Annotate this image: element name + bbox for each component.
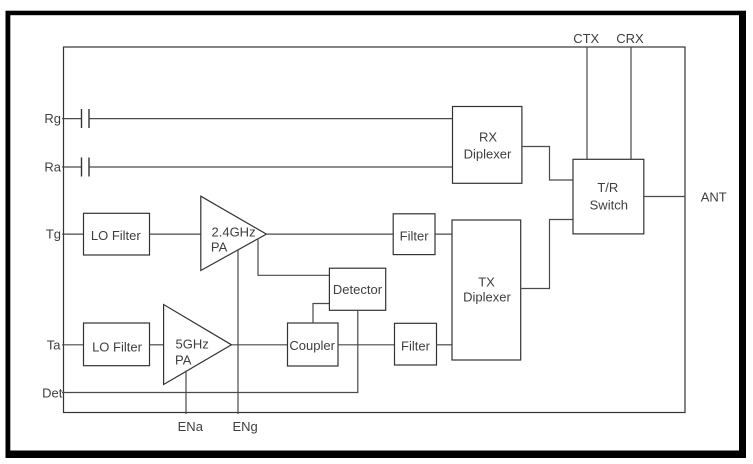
pin label CTX — [573, 31, 599, 46]
svg-text:Ta: Ta — [47, 338, 62, 353]
wire Coupler to Filter — [338, 344, 395, 346]
block TX Diplexer — [452, 220, 521, 360]
svg-text:Detector: Detector — [333, 282, 383, 297]
svg-text:RX: RX — [479, 130, 497, 145]
wire Rg to RX Diplexer — [90, 118, 453, 120]
block Coupler — [288, 323, 339, 366]
amplifier 5GHz PA — [164, 305, 232, 385]
wire ANT output — [644, 196, 685, 198]
pin label Ta — [47, 338, 62, 353]
svg-text:LO Filter: LO Filter — [92, 340, 143, 355]
pin label ANT — [701, 190, 727, 205]
block T/R Switch — [573, 159, 644, 234]
wire 5GHz PA to Coupler — [232, 344, 288, 346]
block LO Filter (5GHz path) — [84, 323, 150, 366]
wire Coupler to Detector — [313, 304, 329, 324]
svg-text:ANT: ANT — [701, 190, 727, 205]
svg-text:5GHz: 5GHz — [176, 337, 209, 352]
wire Det output — [62, 310, 358, 392]
svg-text:2.4GHz: 2.4GHz — [212, 225, 256, 240]
svg-text:PA: PA — [211, 239, 228, 254]
wire ENg control — [237, 250, 239, 415]
wire Rg input — [62, 118, 81, 120]
svg-text:T/R: T/R — [597, 180, 618, 195]
capacitor C2 (Ra line) — [82, 158, 90, 177]
svg-text:Ra: Ra — [44, 160, 61, 175]
svg-text:Tg: Tg — [46, 226, 61, 241]
svg-text:Switch: Switch — [590, 198, 628, 213]
svg-text:Rg: Rg — [44, 111, 61, 126]
svg-text:Coupler: Coupler — [289, 338, 335, 353]
svg-text:Diplexer: Diplexer — [463, 290, 511, 305]
block RX Diplexer — [453, 107, 522, 184]
wire TX Diplexer to T/R Switch — [521, 220, 573, 289]
module boundary box — [64, 47, 686, 413]
svg-text:Filter: Filter — [401, 338, 431, 353]
svg-text:ENg: ENg — [232, 419, 257, 434]
block Filter (2.4GHz path) — [393, 214, 435, 255]
wire detector tap — [258, 239, 330, 276]
block Detector — [329, 268, 385, 310]
wire ENa control — [185, 371, 187, 415]
pin label ENg — [232, 419, 257, 434]
wire CTX control — [586, 47, 588, 159]
wire Ra input — [62, 166, 81, 168]
pin label Ra — [44, 160, 61, 175]
svg-text:Det: Det — [42, 386, 63, 401]
wire CRX control — [630, 47, 632, 159]
wire LO Filter to 2.4GHz PA — [150, 233, 201, 235]
wire Ta input — [62, 344, 84, 346]
pin label ENa — [178, 419, 204, 434]
svg-text:LO Filter: LO Filter — [91, 228, 142, 243]
wire Ra to RX Diplexer — [90, 166, 453, 168]
svg-text:CTX: CTX — [573, 31, 599, 46]
wire 2.4GHz PA to Filter — [266, 233, 393, 235]
pin label Tg — [46, 226, 61, 241]
wire Filter to TX Diplexer (5GHz) — [437, 344, 453, 346]
svg-text:CRX: CRX — [616, 31, 644, 46]
block LO Filter (2.4GHz path) — [84, 213, 150, 255]
amplifier 2.4GHz PA — [201, 196, 267, 270]
pin label Det — [42, 386, 63, 401]
svg-text:PA: PA — [175, 353, 192, 368]
svg-text:Filter: Filter — [400, 228, 430, 243]
wire Tg input — [62, 233, 84, 235]
wire RX Diplexer to T/R Switch — [522, 147, 573, 181]
capacitor C1 (Rg line) — [82, 109, 90, 128]
svg-text:Diplexer: Diplexer — [464, 146, 512, 161]
wire Filter to TX Diplexer — [435, 233, 452, 235]
pin label CRX — [616, 31, 644, 46]
block Filter (5GHz path) — [395, 323, 437, 365]
pin label Rg — [44, 111, 61, 126]
svg-text:ENa: ENa — [178, 419, 204, 434]
wire LO Filter to 5GHz PA — [150, 344, 164, 346]
svg-text:TX: TX — [478, 275, 495, 290]
